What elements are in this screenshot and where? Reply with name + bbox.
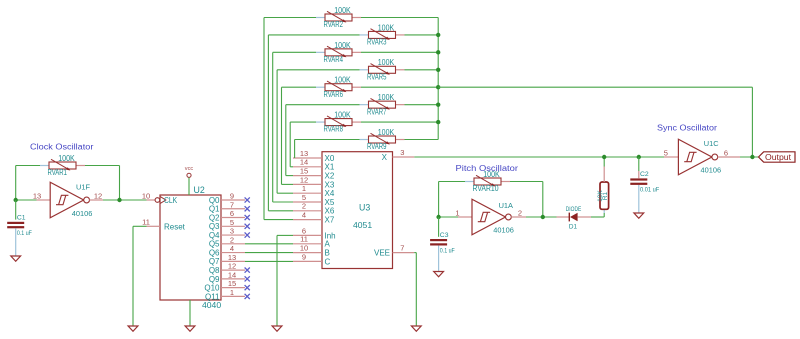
- svg-text:X4: X4: [325, 189, 335, 198]
- svg-text:X7: X7: [325, 216, 335, 225]
- wire RVAR7 left to X2: [286, 105, 360, 176]
- svg-text:1: 1: [230, 288, 234, 297]
- junction clock input node: [14, 198, 18, 202]
- pin Q4 of U2 (pin 3): [209, 227, 245, 240]
- svg-text:1: 1: [455, 208, 459, 217]
- svg-text:X5: X5: [325, 198, 335, 207]
- svg-text:Output: Output: [765, 153, 792, 162]
- svg-text:100K: 100K: [334, 6, 351, 15]
- wire diode to R1: [591, 216, 604, 218]
- svg-text:Q6: Q6: [209, 248, 220, 257]
- svg-text:13: 13: [33, 191, 41, 200]
- pin 12 stub U1F: [90, 199, 104, 201]
- svg-text:Q0: Q0: [209, 196, 220, 205]
- svg-text:RVAR5: RVAR5: [367, 72, 387, 81]
- svg-text:X3: X3: [325, 180, 335, 189]
- pin 11 Reset of U2: [142, 218, 186, 232]
- wire RVAR1 feedback left: [16, 165, 40, 167]
- capacitor C3: [430, 232, 455, 255]
- wire RVAR5 left to X4: [277, 70, 359, 193]
- svg-text:X: X: [382, 153, 388, 162]
- wire U2 ground: [189, 300, 191, 326]
- svg-text:A: A: [325, 240, 331, 249]
- svg-text:R1: R1: [602, 191, 609, 200]
- pin X (3) of U3 output: [382, 148, 415, 162]
- svg-text:U1C: U1C: [704, 139, 719, 148]
- no-connect Q8: [245, 268, 250, 273]
- no-connect Q1: [245, 206, 250, 211]
- wire RVAR4 left to X5: [273, 52, 316, 202]
- svg-text:100K: 100K: [378, 58, 395, 67]
- diode D1: [557, 206, 592, 231]
- svg-text:40106: 40106: [701, 165, 722, 174]
- wire RVAR2 right to bus: [361, 17, 438, 19]
- svg-text:3: 3: [400, 148, 404, 157]
- pin Q11 of U2 (pin 1): [205, 288, 245, 301]
- pin X2 of U3 (pin 15): [293, 167, 335, 181]
- capacitor C2 wire: [638, 157, 640, 171]
- svg-text:Q1: Q1: [209, 205, 220, 214]
- wire sync feedback to output: [438, 86, 752, 88]
- potentiometer RVAR4: [316, 41, 361, 64]
- svg-text:6: 6: [724, 148, 728, 157]
- junction clock output node: [117, 198, 121, 202]
- svg-text:10: 10: [142, 191, 150, 200]
- potentiometer RVAR6: [316, 76, 361, 99]
- ground Inh: [272, 326, 282, 331]
- potentiometer RVAR3: [360, 23, 405, 46]
- no-connect Q11: [245, 294, 250, 299]
- wire VEE to ground: [414, 252, 416, 254]
- wire RVAR7 right to bus: [405, 104, 439, 106]
- svg-text:Reset: Reset: [164, 222, 186, 231]
- svg-text:CLK: CLK: [164, 196, 178, 205]
- junction pitch input node: [436, 215, 440, 219]
- svg-text:12: 12: [94, 191, 102, 200]
- wire Q6 to B: [245, 252, 293, 254]
- junction bus row 4: [436, 85, 440, 89]
- wire RVAR1 feedback right: [85, 165, 120, 167]
- junction bus row 6: [436, 120, 440, 124]
- pin Q5 of U2 (pin 2): [209, 235, 245, 248]
- svg-text:C: C: [325, 257, 331, 266]
- wire RVAR8 left to X1: [290, 122, 316, 167]
- svg-text:100K: 100K: [378, 23, 395, 32]
- potentiometer RVAR8: [316, 110, 361, 133]
- capacitor C2: [630, 171, 659, 194]
- svg-text:Q10: Q10: [204, 284, 220, 293]
- svg-text:Q2: Q2: [209, 213, 220, 222]
- junction R1 top: [602, 155, 606, 159]
- ground C3: [434, 272, 444, 277]
- pin X1 of U3 (pin 14): [293, 158, 335, 172]
- svg-text:4: 4: [230, 244, 234, 253]
- pin 5 stub U1C: [664, 156, 678, 158]
- power VCC: [185, 166, 194, 195]
- inverter U1C (40106 schmitt): [678, 139, 717, 175]
- wire RVAR3 left to X6: [268, 35, 359, 211]
- junction pitch output node: [541, 215, 545, 219]
- svg-text:D1: D1: [569, 223, 578, 230]
- svg-text:100K: 100K: [58, 154, 75, 163]
- no-connect Q0: [245, 197, 250, 202]
- wire Q7 to C: [245, 260, 293, 262]
- capacitor C3 lower pin: [438, 246, 440, 272]
- pin X5 of U3 (pin 5): [293, 193, 335, 207]
- svg-text:X6: X6: [325, 207, 335, 216]
- svg-text:4040: 4040: [202, 300, 221, 310]
- ground U2: [185, 326, 195, 331]
- svg-text:14: 14: [228, 270, 236, 279]
- svg-text:7: 7: [400, 244, 404, 253]
- no-connect Q2: [245, 215, 250, 220]
- pin C of U3 (pin 9): [293, 252, 331, 266]
- svg-text:100K: 100K: [334, 76, 351, 85]
- svg-text:C3: C3: [440, 232, 449, 239]
- potentiometer RVAR9: [360, 128, 405, 151]
- svg-text:9: 9: [302, 252, 306, 261]
- pin 13 stub U1F: [37, 199, 51, 201]
- svg-text:13: 13: [300, 149, 308, 158]
- svg-text:X1: X1: [325, 163, 335, 172]
- potentiometer RVAR1: [40, 154, 85, 177]
- ground C1: [11, 256, 21, 261]
- ground Reset: [128, 326, 138, 331]
- pin B of U3 (pin 10): [293, 244, 330, 258]
- svg-text:100K: 100K: [378, 128, 395, 137]
- svg-text:U1A: U1A: [499, 201, 513, 210]
- svg-text:RVAR9: RVAR9: [367, 142, 387, 151]
- svg-text:RVAR10: RVAR10: [473, 184, 499, 193]
- svg-text:Clock Oscillator: Clock Oscillator: [30, 142, 94, 152]
- wire U1A output: [526, 216, 557, 218]
- wire U1F output to U2 clock: [103, 199, 120, 201]
- ground C2: [634, 213, 644, 218]
- wire Q5 to A: [245, 243, 293, 245]
- wire Reset to ground: [133, 225, 147, 227]
- wire RVAR6 left to X3: [282, 87, 317, 184]
- svg-text:100K: 100K: [378, 93, 395, 102]
- pin Q6 of U2 (pin 4): [209, 244, 245, 257]
- svg-text:C2: C2: [640, 171, 649, 178]
- svg-text:15: 15: [300, 167, 308, 176]
- junction bus row 2: [436, 50, 440, 54]
- svg-text:100K: 100K: [483, 170, 500, 179]
- junction bus row 5: [436, 102, 440, 106]
- wire RVAR5 right to bus: [405, 69, 439, 71]
- pin X4 of U3 (pin 1): [293, 184, 335, 198]
- junction output node: [750, 155, 754, 159]
- pin VEE (7) of U3: [374, 244, 414, 258]
- svg-text:RVAR1: RVAR1: [48, 168, 68, 177]
- inverter U1F (40106 schmitt): [50, 182, 89, 218]
- inverter U1A (40106 schmitt): [472, 199, 511, 235]
- junction bus row 3: [436, 68, 440, 72]
- svg-text:C1: C1: [17, 215, 26, 222]
- wire R1 to X line: [603, 157, 605, 167]
- svg-text:10: 10: [300, 244, 308, 253]
- pin 10 CLK of U2: [142, 191, 178, 205]
- pin 2 stub U1A: [511, 216, 526, 218]
- wire U1C output: [740, 156, 759, 158]
- svg-text:RVAR3: RVAR3: [367, 38, 387, 47]
- svg-text:100K: 100K: [334, 110, 351, 119]
- potentiometer RVAR2: [316, 6, 361, 29]
- wire output bus vertical: [437, 18, 439, 140]
- wire RVAR9 left to X0: [295, 140, 360, 158]
- junction C2 top: [637, 155, 641, 159]
- svg-text:U1F: U1F: [76, 183, 90, 192]
- svg-text:13: 13: [228, 253, 236, 262]
- svg-text:RVAR7: RVAR7: [367, 107, 387, 116]
- svg-text:11: 11: [142, 218, 150, 227]
- svg-text:RVAR6: RVAR6: [324, 90, 344, 99]
- svg-text:Q3: Q3: [209, 222, 220, 231]
- svg-text:9: 9: [230, 192, 234, 201]
- svg-text:0.1 uF: 0.1 uF: [440, 247, 455, 254]
- svg-text:Q11: Q11: [205, 292, 220, 301]
- ground VEE: [411, 326, 421, 331]
- svg-text:Q7: Q7: [209, 257, 220, 266]
- wire RVAR4 right to bus: [361, 51, 438, 53]
- svg-text:Q8: Q8: [209, 266, 220, 275]
- pin Q0 of U2 (pin 9): [209, 192, 245, 205]
- capacitor C1 lower pin: [15, 228, 17, 256]
- IC U3 4051 body: [322, 152, 393, 269]
- svg-text:3: 3: [230, 227, 234, 236]
- svg-text:14: 14: [300, 158, 308, 167]
- svg-text:5: 5: [302, 193, 306, 202]
- no-connect Q9: [245, 276, 250, 281]
- svg-text:B: B: [325, 249, 330, 258]
- pin Q10 of U2 (pin 15): [204, 279, 245, 292]
- svg-text:VEE: VEE: [374, 249, 390, 258]
- svg-text:12: 12: [228, 262, 236, 271]
- svg-text:7: 7: [230, 200, 234, 209]
- wire RVAR10 feedback right: [510, 181, 543, 183]
- capacitor C1 wire: [15, 200, 17, 220]
- svg-text:100K: 100K: [334, 41, 351, 50]
- pin Q1 of U2 (pin 7): [209, 200, 245, 213]
- wire U1A input: [439, 216, 458, 218]
- pin Q8 of U2 (pin 12): [209, 262, 245, 275]
- svg-text:vcc: vcc: [185, 166, 194, 172]
- svg-text:5: 5: [230, 218, 234, 227]
- junction bus row 1: [436, 33, 440, 37]
- pin Q3 of U2 (pin 5): [209, 218, 245, 231]
- svg-text:0.1 uF: 0.1 uF: [17, 230, 32, 237]
- capacitor C3 wire: [438, 217, 440, 237]
- svg-text:U2: U2: [194, 185, 205, 195]
- svg-text:40106: 40106: [72, 209, 93, 218]
- no-connect Q3: [245, 224, 250, 229]
- pin Q7 of U2 (pin 13): [209, 253, 245, 266]
- pin X7 of U3 (pin 4): [293, 211, 335, 225]
- output flag Output: [759, 152, 796, 162]
- pin X0 of U3 (pin 13): [293, 149, 335, 163]
- svg-text:Q9: Q9: [209, 275, 220, 284]
- svg-text:0.01 uF: 0.01 uF: [640, 187, 659, 194]
- svg-text:RVAR2: RVAR2: [324, 20, 344, 29]
- svg-text:RVAR8: RVAR8: [324, 125, 344, 134]
- svg-text:Q5: Q5: [209, 240, 220, 249]
- svg-text:6: 6: [230, 209, 234, 218]
- wire RVAR6 right to bus: [361, 86, 438, 88]
- no-connect Q4: [245, 232, 250, 237]
- svg-text:Q4: Q4: [209, 231, 220, 240]
- svg-text:11: 11: [300, 235, 308, 244]
- svg-text:4051: 4051: [353, 220, 372, 230]
- svg-text:1: 1: [302, 184, 306, 193]
- wire Inh to ground: [277, 234, 293, 236]
- svg-text:RVAR4: RVAR4: [324, 55, 344, 64]
- capacitor C2 lower pin: [638, 185, 640, 213]
- svg-text:5: 5: [664, 148, 668, 157]
- svg-text:X0: X0: [325, 154, 335, 163]
- wire RVAR2 left to X7: [264, 18, 316, 220]
- svg-text:Sync Oscillator: Sync Oscillator: [657, 122, 717, 132]
- svg-text:2: 2: [518, 208, 522, 217]
- wire RVAR10 feedback left: [439, 181, 465, 183]
- pin 1 stub U1A: [458, 216, 472, 218]
- svg-text:X2: X2: [325, 172, 335, 181]
- capacitor C1: [7, 215, 32, 238]
- svg-text:2: 2: [302, 202, 306, 211]
- pin 6 stub U1C: [718, 156, 740, 158]
- svg-text:15: 15: [228, 279, 236, 288]
- pin Inh of U3 (pin 6): [293, 226, 336, 240]
- wire RVAR8 right to bus: [361, 121, 438, 123]
- wire RVAR9 right to bus: [405, 139, 439, 141]
- potentiometer RVAR10: [465, 170, 510, 193]
- potentiometer RVAR5: [360, 58, 405, 81]
- pin A of U3 (pin 11): [293, 235, 331, 249]
- svg-text:U3: U3: [359, 203, 370, 213]
- no-connect Q10: [245, 285, 250, 290]
- potentiometer RVAR7: [360, 93, 405, 116]
- wire X output line: [414, 156, 664, 158]
- pin X6 of U3 (pin 2): [293, 202, 335, 216]
- svg-text:40106: 40106: [493, 225, 514, 234]
- pin X3 of U3 (pin 12): [293, 175, 335, 189]
- wire U1F input: [16, 199, 37, 201]
- svg-text:DIODE: DIODE: [566, 206, 582, 213]
- svg-text:4: 4: [302, 211, 306, 220]
- resistor R1 10K: [597, 167, 609, 214]
- pin Q9 of U2 (pin 14): [209, 270, 245, 283]
- IC U2 4040 body: [160, 195, 221, 300]
- wire RVAR3 right to bus: [405, 34, 439, 36]
- svg-text:2: 2: [230, 235, 234, 244]
- svg-text:12: 12: [300, 175, 308, 184]
- pin Q2 of U2 (pin 6): [209, 209, 245, 222]
